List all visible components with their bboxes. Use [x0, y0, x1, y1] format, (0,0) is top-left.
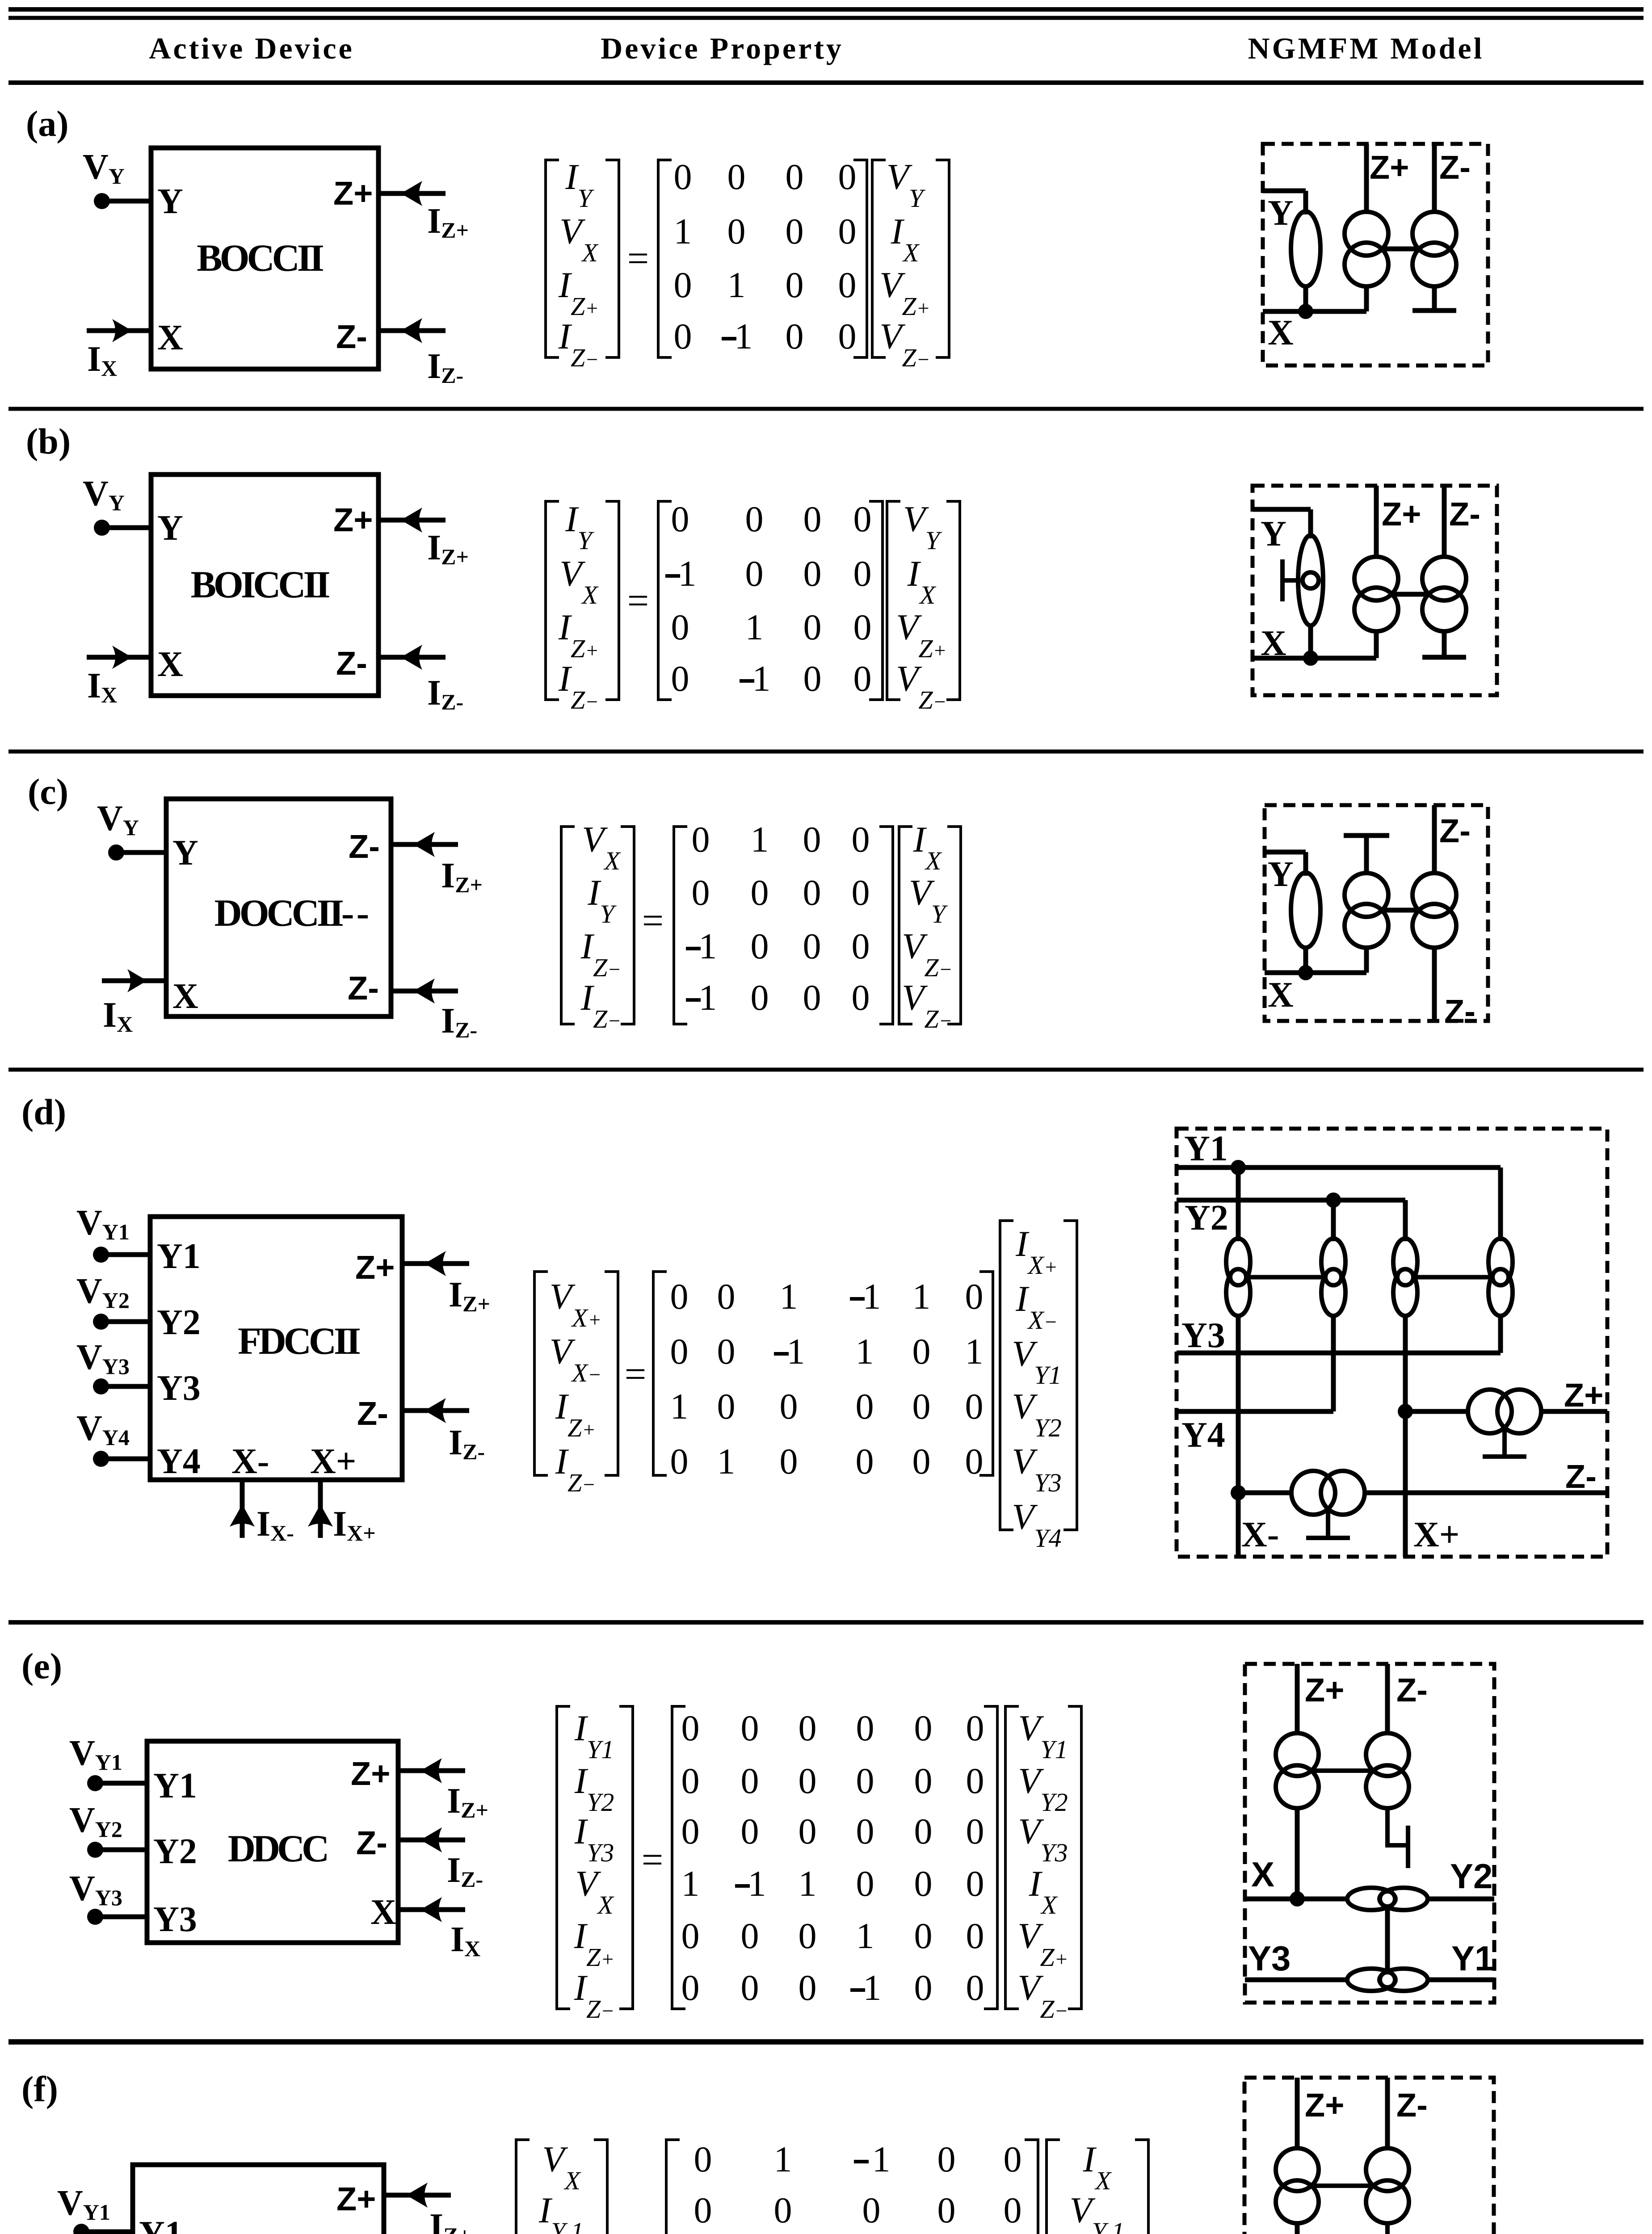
svg-text:Y4: Y4	[1181, 1415, 1225, 1455]
svg-text:Z-: Z-	[1439, 812, 1471, 849]
svg-text:Y3: Y3	[153, 1900, 197, 1939]
svg-text:X: X	[370, 1893, 396, 1932]
svg-text:0: 0	[856, 1863, 874, 1904]
svg-text:BOICCII: BOICCII	[191, 563, 329, 606]
svg-text:0: 0	[838, 316, 857, 357]
svg-text:0: 0	[774, 2190, 792, 2230]
svg-text:Z+: Z+	[1564, 1377, 1603, 1414]
svg-text:0: 0	[671, 499, 689, 539]
wire VY	[102, 199, 151, 204]
norator Z+ (d)	[1468, 1390, 1512, 1433]
svg-text:1: 1	[735, 316, 753, 357]
svg-text:0: 0	[966, 1708, 984, 1748]
table rule between rows a-b	[8, 407, 1644, 411]
svg-text:Z-: Z-	[1565, 1458, 1597, 1495]
svg-text:1: 1	[699, 926, 717, 966]
O element 3 (d)	[1393, 1239, 1417, 1316]
O element 4 (d)	[1488, 1239, 1513, 1316]
svg-text:1: 1	[863, 1967, 882, 2008]
wire Z- out (d)	[1363, 1491, 1607, 1495]
svg-text:Y1: Y1	[153, 1766, 197, 1806]
table rule below header	[8, 80, 1644, 85]
svg-text:1: 1	[717, 1441, 736, 1482]
junction Y1 (d)	[1231, 1160, 1246, 1175]
svg-text:0: 0	[1004, 2139, 1022, 2179]
wire VY3	[95, 1915, 147, 1919]
wire with arrow into pin Z-	[398, 1827, 465, 1852]
svg-text:0: 0	[803, 819, 821, 860]
wire VY2	[101, 1319, 150, 1324]
O element 2 (d)	[1321, 1239, 1345, 1316]
junction X+/Z+ (d)	[1398, 1404, 1413, 1419]
eq (a): right vector bracket	[872, 160, 949, 357]
wire to Z- norator (d)	[1238, 1491, 1294, 1495]
svg-text:Z-: Z-	[356, 1824, 387, 1861]
svg-text:0: 0	[786, 316, 804, 357]
wire norator to X (a)	[1364, 285, 1369, 311]
eq (f): matrix brackets	[666, 2140, 1038, 2234]
svg-text:1: 1	[745, 607, 764, 647]
svg-text:0: 0	[694, 2190, 712, 2230]
svg-text:0: 0	[862, 2190, 881, 2230]
junction X (c)	[1298, 965, 1313, 980]
eq (c): left vector bracket	[561, 827, 634, 1024]
svg-text:0: 0	[803, 926, 821, 966]
svg-text:0: 0	[751, 926, 769, 966]
svg-text:1: 1	[774, 2139, 792, 2179]
svg-text:X: X	[172, 977, 198, 1016]
svg-text:0: 0	[966, 1863, 984, 1904]
NGMFM boundary (a)	[1263, 144, 1488, 365]
svg-text:0: 0	[717, 1386, 736, 1427]
svg-text:1: 1	[748, 1863, 766, 1904]
bent ground wire (f)	[1387, 2221, 1408, 2234]
svg-text:Z+: Z+	[1382, 496, 1421, 533]
ground bar Z+ (d)	[1483, 1454, 1526, 1459]
svg-text:0: 0	[674, 156, 692, 197]
svg-text:0: 0	[803, 499, 822, 539]
wire Z- (a)	[1432, 144, 1437, 214]
svg-text:0: 0	[966, 1811, 984, 1852]
link wire between norators (a)	[1382, 247, 1419, 252]
wire between O elements (e)	[1385, 1906, 1390, 1972]
NGMFM boundary (f)	[1244, 2078, 1494, 2234]
NGMFM boundary (e)	[1245, 1664, 1494, 2003]
svg-text:0: 0	[914, 1760, 933, 1801]
wire Z+ out (d)	[1540, 1409, 1607, 1414]
NGMFM boundary (b)	[1253, 486, 1497, 695]
wire with arrow into pin Z-	[402, 1398, 469, 1423]
svg-text:Y3: Y3	[157, 1369, 201, 1408]
svg-text:0: 0	[745, 553, 764, 594]
norator Z- (b)	[1422, 557, 1466, 600]
wire Z- bottom (c)	[1432, 946, 1437, 1021]
wire with arrow into pin Z+	[402, 1251, 469, 1276]
wire with arrow into pin Z- top	[391, 832, 458, 857]
svg-text:0: 0	[670, 1276, 689, 1317]
svg-text:1: 1	[674, 211, 692, 252]
link wire O1-O2 (d)	[1246, 1275, 1325, 1280]
svg-text:(e): (e)	[21, 1646, 62, 1686]
wire nullator to X (a)	[1303, 284, 1308, 311]
link wire between norators (c)	[1382, 908, 1419, 913]
ground stub Z+ (d)	[1502, 1426, 1507, 1457]
wire with arrow into pin Z-	[378, 318, 446, 343]
table rule between rows e-f	[8, 2039, 1644, 2045]
wire VY	[102, 525, 151, 530]
svg-text:Z-: Z-	[1444, 993, 1475, 1030]
svg-text:Z+: Z+	[1370, 149, 1409, 186]
table rule top inner	[8, 16, 1644, 20]
svg-text:1: 1	[965, 1331, 984, 1372]
table rule between rows c-d	[8, 1068, 1644, 1072]
ground stub Z- (d)	[1326, 1508, 1330, 1538]
svg-text:Y2: Y2	[1450, 1856, 1492, 1896]
node VY	[108, 844, 124, 861]
svg-text:Z-: Z-	[348, 970, 379, 1007]
svg-text:0: 0	[914, 1708, 933, 1748]
svg-text:0: 0	[853, 499, 872, 539]
wire O1 to X- (d)	[1236, 1314, 1241, 1557]
svg-text:Y2: Y2	[153, 1832, 197, 1871]
svg-text:0: 0	[856, 1386, 874, 1427]
wire to Y1 (e)	[1426, 1978, 1494, 1982]
wire with arrow into pin Z+	[378, 508, 446, 533]
svg-text:0: 0	[671, 658, 689, 699]
NGMFM boundary (c)	[1265, 805, 1488, 1021]
svg-text:0: 0	[692, 819, 710, 860]
wire Z+ (a)	[1364, 144, 1369, 214]
svg-text:=: =	[627, 579, 649, 622]
wire to Z+ norator (d)	[1405, 1409, 1470, 1414]
svg-text:0: 0	[852, 819, 870, 860]
svg-text:0: 0	[838, 156, 857, 197]
norator Z+ (b)	[1354, 557, 1398, 600]
svg-text:Z+: Z+	[355, 1249, 395, 1286]
svg-text:0: 0	[727, 211, 746, 252]
svg-text:0: 0	[681, 1760, 700, 1801]
svg-text:1: 1	[856, 1331, 874, 1372]
link wire between norators (f)	[1312, 2184, 1373, 2188]
wire norator to X (b)	[1374, 630, 1379, 658]
svg-text:0: 0	[786, 265, 804, 305]
nullator (b)	[1298, 535, 1323, 626]
svg-text:0: 0	[780, 1386, 798, 1427]
svg-text:0: 0	[852, 872, 870, 913]
norator Z+ (e)	[1276, 1733, 1319, 1776]
ground bar Z- (d)	[1306, 1536, 1350, 1540]
O element 1 (d)	[1226, 1239, 1250, 1316]
svg-text:1: 1	[856, 1915, 874, 1956]
wire with arrow into pin Z+	[378, 181, 446, 206]
svg-text:0: 0	[803, 872, 821, 913]
wire VY3	[101, 1384, 150, 1389]
ground (b)	[1422, 655, 1466, 660]
svg-text:0: 0	[966, 1760, 984, 1801]
svg-text:Y: Y	[1268, 193, 1294, 233]
svg-text:Y: Y	[172, 833, 198, 873]
eq (b): matrix cell r2c1 = −1	[665, 574, 680, 578]
table rule top outer	[8, 7, 1644, 12]
svg-text:0: 0	[914, 1915, 933, 1956]
svg-text:0: 0	[803, 607, 822, 647]
svg-text:(c): (c)	[28, 771, 68, 812]
svg-text:0: 0	[912, 1441, 931, 1482]
eq (a): matrix brackets	[658, 160, 867, 357]
wire nullator to X (c)	[1303, 945, 1308, 973]
svg-text:DDCC: DDCC	[228, 1827, 327, 1870]
svg-text:0: 0	[780, 1441, 798, 1482]
eq (d): left vector bracket	[534, 1272, 618, 1475]
device box DVCC	[133, 2165, 384, 2234]
eq (c): matrix cell r3c1 = −1	[686, 947, 701, 950]
svg-text:Y2: Y2	[157, 1303, 201, 1342]
svg-text:0: 0	[751, 977, 769, 1018]
svg-text:(b): (b)	[26, 421, 71, 462]
svg-text:(a): (a)	[26, 103, 69, 144]
node VY2	[93, 1314, 109, 1330]
svg-text:1: 1	[863, 1276, 881, 1317]
svg-text:0: 0	[852, 977, 870, 1018]
wire with arrow into pin Z+	[384, 2183, 451, 2208]
svg-text:=: =	[627, 237, 649, 280]
svg-text:Y: Y	[157, 508, 183, 548]
svg-text:1: 1	[752, 658, 771, 699]
svg-text:0: 0	[694, 2139, 712, 2179]
svg-text:0: 0	[937, 2190, 956, 2230]
svg-text:BOCCII: BOCCII	[197, 236, 323, 279]
eq (f): left vector bracket	[516, 2140, 607, 2234]
wire with arrow into pin Z+	[398, 1758, 465, 1783]
node VY1	[87, 1775, 103, 1791]
eq (b): right vector bracket	[887, 501, 960, 700]
eq (d): matrix cell r1c4 = −1	[850, 1297, 865, 1301]
svg-text:Y3: Y3	[1181, 1316, 1225, 1355]
wire Y3 (d)	[1177, 1351, 1501, 1356]
svg-text:1: 1	[799, 1863, 817, 1904]
wire O4 to Y3 (d)	[1498, 1314, 1503, 1353]
svg-text:DOCCII- -: DOCCII- -	[214, 891, 368, 934]
svg-text:0: 0	[966, 1915, 984, 1956]
wire norator to ground (b)	[1442, 630, 1447, 656]
svg-text:0: 0	[741, 1967, 759, 2008]
device box DDCC	[147, 1741, 398, 1943]
wire with arrow into pin X	[87, 319, 151, 342]
svg-text:X-: X-	[1241, 1515, 1279, 1554]
eq (c): matrix brackets	[674, 827, 893, 1024]
svg-text:1: 1	[912, 1276, 931, 1317]
eq (f): right vector bracket	[1047, 2140, 1148, 2234]
svg-text:0: 0	[692, 872, 710, 913]
wire X (b)	[1253, 656, 1376, 661]
svg-text:0: 0	[741, 1811, 759, 1852]
bent ground bar (e)	[1406, 1826, 1410, 1868]
svg-text:Y4: Y4	[157, 1442, 201, 1481]
eq (f): matrix cell r1c3 = − 1	[854, 2160, 869, 2163]
wire Z+ (b)	[1374, 486, 1379, 558]
wire VY2	[95, 1848, 147, 1852]
NGMFM boundary (d)	[1177, 1129, 1607, 1557]
svg-text:0: 0	[937, 2139, 956, 2179]
svg-text:1: 1	[681, 1863, 700, 1904]
eq (b): matrix cell r4c2 = −1	[740, 679, 754, 683]
svg-text:1: 1	[872, 2139, 891, 2179]
svg-text:Z-: Z-	[336, 318, 367, 355]
svg-text:Y2: Y2	[1185, 1198, 1228, 1238]
eq (a): matrix cell r4c2 = −1	[722, 337, 736, 340]
wire VY4	[101, 1457, 150, 1461]
wire nullator to X (b)	[1308, 623, 1313, 658]
wire Y4 (d)	[1177, 1409, 1333, 1414]
wire Y1 (d)	[1177, 1167, 1501, 1241]
svg-text:Z-: Z-	[336, 645, 367, 682]
node VY2	[87, 1842, 103, 1858]
svg-text:0: 0	[681, 1708, 700, 1748]
svg-text:Z+: Z+	[1305, 2087, 1344, 2124]
svg-text:0: 0	[799, 1760, 817, 1801]
svg-text:0: 0	[751, 872, 769, 913]
svg-text:0: 0	[853, 658, 872, 699]
wire VY	[116, 850, 166, 855]
wire norator to ground (a)	[1432, 285, 1437, 311]
svg-text:Z-: Z-	[1396, 1671, 1428, 1709]
svg-text:Y1: Y1	[1184, 1129, 1228, 1168]
svg-text:X+: X+	[1413, 1515, 1459, 1554]
svg-text:0: 0	[799, 1915, 817, 1956]
device box BOICCII	[151, 475, 378, 696]
svg-text:1: 1	[787, 1331, 805, 1372]
svg-text:1: 1	[699, 977, 717, 1018]
eq (c): matrix cell r4c1 = −1	[686, 998, 701, 1002]
table rule between rows b-c	[8, 750, 1644, 754]
nullator (a)	[1291, 211, 1320, 286]
O element lower (e)	[1347, 1969, 1428, 1991]
svg-text:0: 0	[786, 211, 804, 252]
svg-text:0: 0	[681, 1811, 700, 1852]
svg-text:0: 0	[670, 1441, 689, 1482]
wire Z+ (f)	[1295, 2078, 1300, 2150]
svg-text:=: =	[642, 899, 664, 942]
svg-text:0: 0	[717, 1331, 736, 1372]
svg-text:Z+: Z+	[1305, 1671, 1344, 1709]
svg-text:Y: Y	[1261, 514, 1286, 554]
norator left (c)	[1345, 873, 1388, 917]
bent ground wire (e)	[1387, 1806, 1408, 1845]
svg-text:0: 0	[671, 607, 689, 647]
svg-text:Z-: Z-	[1439, 149, 1471, 186]
inverting stub wire (b)	[1282, 578, 1298, 583]
svg-text:1: 1	[751, 819, 769, 860]
svg-text:X: X	[1268, 975, 1294, 1015]
svg-text:0: 0	[965, 1386, 984, 1427]
node VY1	[93, 1247, 109, 1263]
svg-text:0: 0	[966, 1967, 984, 2008]
node VY	[94, 520, 110, 536]
svg-text:(f): (f)	[21, 2069, 58, 2109]
wire Y2 junction to O2 (d)	[1331, 1200, 1336, 1241]
node VY4	[93, 1451, 109, 1467]
svg-text:X: X	[1261, 624, 1286, 663]
wire Y (c)	[1265, 852, 1306, 876]
wire Y1 junction to O1 (d)	[1236, 1167, 1241, 1241]
wire with arrow into pin X	[87, 646, 151, 669]
svg-text:0: 0	[681, 1915, 700, 1956]
device box DOCCII--	[166, 799, 391, 1016]
svg-text:1: 1	[670, 1386, 689, 1427]
svg-text:0: 0	[799, 1967, 817, 2008]
svg-text:0: 0	[786, 156, 804, 197]
svg-text:0: 0	[912, 1386, 931, 1427]
wire VY1	[101, 1252, 150, 1257]
svg-text:Y3: Y3	[1248, 1939, 1290, 1978]
wire to Y2 (e)	[1426, 1897, 1494, 1902]
device box FDCCII	[150, 1217, 402, 1480]
wire Z- (b)	[1442, 486, 1447, 558]
nullator (c)	[1291, 873, 1320, 948]
svg-text:X: X	[1268, 313, 1294, 353]
norator Z- (a)	[1412, 212, 1456, 256]
svg-text:Z+: Z+	[351, 1755, 390, 1792]
junction X (a)	[1298, 304, 1313, 319]
eq (a): left vector bracket	[546, 160, 619, 357]
svg-text:0: 0	[745, 499, 764, 539]
ground (a)	[1412, 308, 1456, 313]
svg-text:X: X	[1251, 1855, 1274, 1894]
junction X (e)	[1290, 1891, 1305, 1906]
svg-text:0: 0	[965, 1276, 984, 1317]
svg-text:0: 0	[838, 211, 857, 252]
svg-text:0: 0	[856, 1811, 874, 1852]
eq (e): matrix brackets	[672, 1706, 997, 2009]
eq (d): right vector bracket	[1000, 1221, 1077, 1530]
wire with arrow into pin X-	[230, 1480, 255, 1538]
svg-text:Y1: Y1	[139, 2214, 183, 2234]
svg-text:Z+: Z+	[333, 175, 373, 212]
eq (e): left vector bracket	[557, 1706, 633, 2009]
wire O2 to Y4 (d)	[1331, 1314, 1336, 1411]
svg-text:Z-: Z-	[1449, 496, 1480, 533]
svg-text:0: 0	[670, 1331, 689, 1372]
wire with arrow into pin X	[398, 1897, 465, 1922]
svg-text:0: 0	[674, 265, 692, 305]
svg-text:0: 0	[914, 1811, 933, 1852]
svg-text:X: X	[157, 645, 183, 684]
norator Z+ (f)	[1276, 2148, 1319, 2191]
svg-text:Y1: Y1	[157, 1237, 201, 1276]
norator Z- (d)	[1291, 1471, 1335, 1515]
eq (e): matrix cell r6c4 = −1	[850, 1988, 865, 1992]
junction X-/Z- (d)	[1231, 1485, 1246, 1500]
svg-text:1: 1	[780, 1276, 798, 1317]
wire norator to X (f)	[1295, 2221, 1300, 2234]
svg-text:X+: X+	[310, 1442, 356, 1481]
device box BOCCII	[151, 148, 378, 369]
wire VY1	[81, 2230, 133, 2234]
node VY1	[73, 2224, 89, 2234]
svg-text:Z+: Z+	[333, 501, 373, 538]
wire Y3 (e)	[1245, 1978, 1349, 1982]
junction Y2 (d)	[1326, 1193, 1341, 1208]
junction X (b)	[1303, 651, 1318, 666]
svg-text:0: 0	[741, 1708, 759, 1748]
norator Z- (e)	[1366, 1733, 1409, 1776]
svg-text:0: 0	[741, 1760, 759, 1801]
norator Z+ (a)	[1345, 212, 1388, 256]
wire with arrow into pin Z- bottom	[391, 978, 458, 1004]
antenna stub (c)	[1364, 836, 1369, 875]
wire with arrow into pin Z-	[378, 645, 446, 670]
wire Y2 (d)	[1177, 1200, 1405, 1241]
